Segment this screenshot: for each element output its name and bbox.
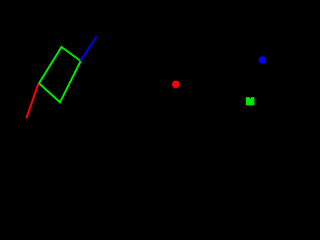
node N2 (blue dot) bbox=[259, 56, 267, 64]
node N1 (red dot) bbox=[172, 81, 180, 89]
component body U1 (rotated rectangle outline) bbox=[39, 47, 81, 102]
wire lead A (red) bbox=[26, 83, 38, 118]
wire lead B (blue) bbox=[81, 37, 97, 62]
pad N3 (green square with top notch) bbox=[246, 97, 255, 105]
